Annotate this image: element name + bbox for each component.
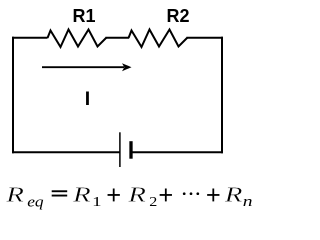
equation plus sign 1 — [108, 189, 120, 202]
wire bottom-left segment — [12, 151, 120, 153]
equation equals sign — [52, 190, 67, 196]
svg-text:R: R — [224, 183, 243, 206]
equation ellipsis dots — [183, 192, 199, 195]
current arrow I — [42, 63, 132, 71]
svg-text:R1: R1 — [72, 6, 95, 26]
resistor R1 — [48, 30, 107, 48]
battery V1 positive plate — [119, 132, 121, 167]
svg-text:R: R — [5, 183, 24, 206]
svg-text:n: n — [243, 193, 253, 209]
wire top-middle segment — [106, 37, 130, 39]
equation plus sign 2 — [160, 189, 172, 202]
wire left segment — [12, 37, 14, 154]
equation plus sign 3 — [207, 189, 219, 202]
svg-text:R: R — [72, 183, 91, 206]
equation Req = R1 + R2 + ... + Rn — [5, 183, 252, 210]
wire top-left segment — [12, 37, 48, 39]
resistor R2 — [129, 30, 188, 48]
wire right segment — [221, 37, 223, 154]
svg-text:eq: eq — [27, 195, 43, 210]
svg-text:1: 1 — [92, 193, 101, 209]
wire bottom-right segment — [131, 151, 223, 153]
battery V1 negative plate — [129, 141, 132, 159]
svg-text:R2: R2 — [166, 6, 189, 26]
svg-text:2: 2 — [149, 195, 157, 210]
wire top-right segment — [187, 37, 224, 39]
svg-text:R: R — [127, 183, 146, 206]
svg-text:I: I — [85, 88, 90, 110]
